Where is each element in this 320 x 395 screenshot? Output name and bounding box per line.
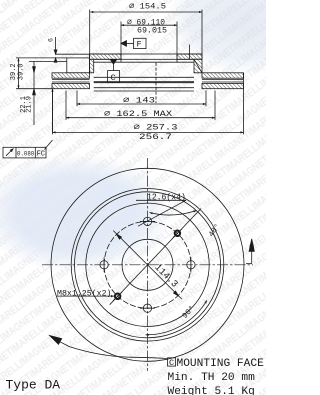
hat left wall (hatched) xyxy=(90,59,94,73)
center bore circle xyxy=(122,239,173,290)
hat top band right (hatched) xyxy=(177,54,202,59)
svg-text:0.080: 0.080 xyxy=(17,150,34,157)
svg-text:⌀ 143: ⌀ 143 xyxy=(123,96,155,106)
bolt hole 6:00 xyxy=(140,304,155,312)
dimension 6 hat offset xyxy=(54,37,89,62)
svg-text:256.7: 256.7 xyxy=(139,132,172,142)
dimension dia 69.110/69.015 xyxy=(121,22,177,55)
svg-text:Weight 5.1 Kg: Weight 5.1 Kg xyxy=(168,386,255,395)
FCF leader xyxy=(44,89,52,150)
svg-text:C: C xyxy=(169,358,174,368)
circle r76 xyxy=(71,188,224,341)
hat top band outline xyxy=(90,54,203,59)
window interior lines seen through bore xyxy=(94,77,194,91)
dimension 22.1/21.9 xyxy=(29,61,67,125)
svg-text:⌀ 257.3: ⌀ 257.3 xyxy=(134,122,178,132)
outer shoulder box left xyxy=(67,58,90,73)
hat top band left (hatched) xyxy=(90,54,122,59)
svg-text:21.9: 21.9 xyxy=(26,96,34,113)
svg-text:M8x1.25(x2): M8x1.25(x2) xyxy=(57,288,112,298)
bolt hole 3:00 xyxy=(187,257,195,272)
circle r73 xyxy=(75,192,221,338)
datum F box xyxy=(121,38,146,48)
svg-text:MOUNTING FACE: MOUNTING FACE xyxy=(177,358,265,370)
left ring plate 2 (hatched) xyxy=(52,83,90,88)
svg-text:⌀ 162.5 MAX: ⌀ 162.5 MAX xyxy=(104,109,172,119)
48 deg arc xyxy=(150,211,197,216)
dimension dia 114.3 diagonal xyxy=(113,231,182,300)
bolt circle dashed xyxy=(104,221,191,308)
svg-text:6: 6 xyxy=(47,38,54,42)
vertical centerline xyxy=(147,158,149,371)
text C MOUNTING FACE xyxy=(168,358,265,395)
blue watermark patch top-right xyxy=(165,0,320,75)
dimension dia 154.5 xyxy=(90,10,202,55)
M8 hole upper right xyxy=(173,229,182,238)
horizontal centerline xyxy=(42,264,253,266)
runout FCF box xyxy=(3,147,46,158)
dimension dia 257.3/256.7 xyxy=(53,73,244,135)
datum C box xyxy=(108,59,120,82)
right ring plate 1 (hatched) xyxy=(202,73,244,78)
circle dia 162.5 xyxy=(86,203,209,326)
right ring plate 2 (hatched) xyxy=(202,83,244,88)
leader M8 label xyxy=(57,295,114,297)
M8 hole lower left xyxy=(113,292,122,301)
svg-text:Min. TH 20 mm: Min. TH 20 mm xyxy=(168,372,256,384)
svg-text:39.0: 39.0 xyxy=(18,63,26,80)
svg-text:F: F xyxy=(137,40,142,50)
leader 12.6 xyxy=(136,200,186,226)
dimension dia 143 xyxy=(77,91,206,107)
blue watermark patch left-center xyxy=(0,140,180,305)
hat right wall (hatched) xyxy=(194,59,202,73)
bolt hole 9:00 xyxy=(100,257,108,272)
dimension 39.2/39.0 xyxy=(16,58,67,89)
bore gap lines xyxy=(121,54,177,62)
hub face line xyxy=(94,61,194,63)
svg-text:Type DA: Type DA xyxy=(6,377,61,392)
bolt hole centerline right xyxy=(188,45,190,60)
90 deg arc xyxy=(146,300,207,335)
leader outer edge arrow xyxy=(50,336,168,359)
right ring vent lines xyxy=(202,80,244,82)
dimension dia 162.5 MAX xyxy=(66,91,215,120)
bolt hole hidden line dashed xyxy=(155,63,157,103)
left ring plate 1 (hatched) xyxy=(52,73,90,78)
svg-text:C: C xyxy=(111,73,116,83)
outer circle xyxy=(51,168,244,361)
section view direction arrow right xyxy=(246,239,254,264)
left ring vent lines xyxy=(52,80,90,82)
bolt hole 12:00 xyxy=(140,217,155,225)
svg-text:69.015: 69.015 xyxy=(137,25,167,35)
svg-text:FC: FC xyxy=(37,150,45,158)
svg-text:12.6(x4): 12.6(x4) xyxy=(147,192,186,202)
M8 radial line xyxy=(110,209,201,305)
svg-text:⌀ 154.5: ⌀ 154.5 xyxy=(129,1,166,11)
